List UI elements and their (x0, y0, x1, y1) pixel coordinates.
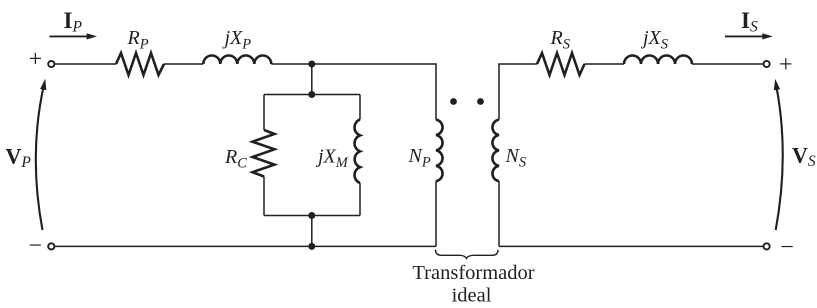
inductor jX_P (203, 56, 271, 65)
svg-text:ideal: ideal (452, 285, 492, 307)
wire box left lower (263, 177, 265, 216)
winding N_S (492, 120, 499, 182)
wire box top (264, 94, 360, 96)
svg-text:Transformador: Transformador (412, 262, 534, 284)
svg-text:+: + (779, 52, 793, 78)
wire box right upper (359, 95, 361, 120)
wire top-left from + terminal to R_P (54, 63, 116, 65)
resistor R_S (537, 53, 585, 75)
winding N_P (436, 120, 443, 182)
wire N_S top to R_S (499, 64, 537, 120)
inductor jX_M (355, 120, 360, 184)
terminal bottom-right (764, 243, 770, 249)
wire box left upper (263, 95, 265, 131)
resistor R_P (116, 53, 164, 75)
wire jX_S to + terminal (692, 63, 763, 65)
polarity dot primary (450, 98, 457, 105)
junction node bottom rail (308, 243, 315, 250)
wire N_S to bottom rail (498, 181, 500, 246)
junction node box top (308, 91, 315, 98)
wire shunt branch to bottom rail (311, 216, 313, 247)
terminal top-right (764, 61, 770, 67)
voltage arrow V_P (36, 79, 47, 230)
wire jX_P to transformer primary, turns down into N_P (271, 64, 436, 120)
inductor jX_S (624, 56, 692, 65)
resistor R_C (253, 130, 275, 177)
wire R_S to jX_S (585, 63, 625, 65)
terminal top-left (48, 61, 54, 67)
current arrow I_S (725, 33, 773, 39)
terminal bottom-left (48, 243, 54, 249)
wire N_P to bottom rail (435, 181, 437, 246)
svg-text:−: − (28, 233, 42, 259)
wire box right lower (359, 183, 361, 216)
wire R_P to jX_P (164, 63, 203, 65)
wire shunt branch riser (311, 64, 313, 95)
current arrow I_P (50, 33, 98, 39)
voltage arrow V_S (774, 79, 783, 230)
wire bottom rail right (499, 245, 763, 247)
polarity dot secondary (477, 98, 484, 105)
junction node top of shunt (308, 61, 315, 68)
svg-text:−: − (780, 235, 794, 261)
brace under ideal transformer (436, 250, 499, 258)
wire bottom rail left (54, 245, 436, 247)
svg-text:+: + (29, 47, 43, 73)
junction node box bottom (308, 212, 315, 219)
wire box bottom (264, 215, 360, 217)
